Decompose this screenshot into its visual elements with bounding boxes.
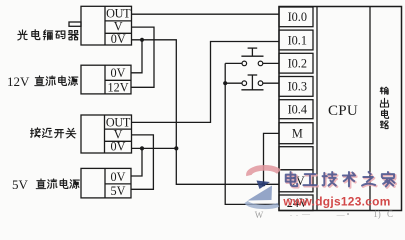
wire encoder OUT to I0.0 [132, 13, 280, 15]
svg-text:12V: 12V [108, 81, 129, 95]
proximity cell divider OUT/V [105, 128, 132, 130]
svg-text:. . —: . . — [290, 209, 311, 218]
wire encoder V to 12V+ supply [131, 27, 154, 87]
svg-text:www.dgjs123.com: www.dgjs123.com [282, 194, 390, 208]
proximity internal divider [104, 115, 106, 153]
svg-text:5V: 5V [12, 177, 29, 192]
encoder shaft tab [69, 22, 81, 26]
watermark logo blue bottom arc [246, 202, 279, 207]
stop pushbutton SB2 (NC) contact circles [242, 81, 247, 86]
input terminal 0V [279, 170, 313, 192]
encoder internal divider [104, 6, 106, 45]
output circuit column label: shu-chu-dian-lu [380, 87, 388, 94]
junction proximity 0V / 5V 0V [140, 146, 144, 150]
5V supply cell divider [105, 183, 131, 185]
wire proximity OUT to I0.1 [132, 42, 280, 123]
svg-text:I0.4: I0.4 [288, 103, 307, 117]
input terminal I0.2 [279, 53, 313, 73]
12V DC power supply body [81, 65, 131, 94]
stop button bridge bar [241, 89, 263, 91]
svg-text:I0.2: I0.2 [288, 57, 307, 71]
input terminal 24V [279, 195, 313, 211]
svg-text:0V: 0V [111, 140, 126, 154]
svg-text:0V: 0V [111, 66, 126, 80]
wire stop button to I0.3 [263, 82, 279, 84]
5V supply internal divider [104, 168, 106, 198]
label: guang-dian-bian-ma-qi (photoelectric encoder) [18, 30, 27, 40]
junction encoder 0V / 12V 0V [140, 38, 144, 42]
input terminal I0.0 [279, 7, 313, 27]
label: zhi-liu-dian-yuan (DC power) for 12V [35, 76, 44, 86]
label: zhi-liu-dian-yuan (DC power) for 5V [36, 179, 45, 189]
input terminal I0.4 [279, 100, 313, 119]
start button bridge bar [241, 55, 263, 57]
5V DC power supply body [81, 168, 131, 198]
svg-text:— •: — • [336, 210, 350, 219]
proximity cell divider V/0V [105, 140, 132, 142]
junction 0V net / M terminal branch [261, 182, 265, 186]
input terminal spare [279, 147, 313, 170]
watermark site name: dian-gong-ji-shu-zhi-jia [287, 173, 298, 187]
divider terminal column / CPU [316, 7, 318, 211]
wire start button left lead [225, 62, 242, 64]
stop button actuator cap [248, 74, 258, 76]
watermark logo pink top arc [249, 168, 279, 176]
svg-text:5V: 5V [111, 184, 126, 198]
input terminal M [279, 123, 313, 144]
wire stop button left lead [225, 82, 242, 84]
photoelectric encoder body [81, 6, 132, 45]
junction proximity 0V on 0V net [174, 146, 178, 150]
divider CPU / output circuit [369, 7, 371, 211]
svg-text:I0.0: I0.0 [288, 10, 307, 24]
wire proximity V to 5V+ supply [131, 135, 153, 189]
svg-text:0V: 0V [111, 32, 126, 46]
input terminal I0.1 [279, 30, 313, 50]
wire branch 0V net to M terminal [264, 133, 280, 184]
svg-text:12V: 12V [7, 74, 30, 89]
input terminal I0.3 [279, 77, 313, 97]
wire proximity 0V to 0V net [132, 147, 177, 149]
svg-text:1): 1) [373, 209, 381, 219]
wire start button to I0.2 [263, 62, 279, 64]
encoder cell divider V/0V [105, 32, 132, 34]
proximity switch body [81, 115, 132, 153]
wire 0V net: encoder 0V down to CPU 0V terminal [132, 40, 280, 185]
start button actuator cap [248, 47, 258, 49]
svg-text:0V: 0V [111, 170, 126, 184]
stop button actuator stem [251, 75, 253, 90]
wire branch to 5V supply 0V [131, 148, 142, 176]
svg-text:M: M [292, 127, 303, 141]
svg-text:I0.3: I0.3 [288, 80, 307, 94]
encoder cell divider OUT/V [105, 20, 132, 22]
label: jie-jin-kai-guan (proximity switch) [31, 128, 41, 137]
svg-text:OUT: OUT [106, 7, 131, 21]
junction stop button on 24V riser [223, 81, 227, 85]
start button actuator stem [251, 48, 253, 56]
watermark logo blue pennant [248, 186, 273, 201]
svg-text:C: C [387, 209, 393, 219]
wire button common to 24V terminal [225, 63, 279, 204]
12V supply cell divider [105, 79, 131, 81]
CPU outer box [279, 7, 402, 211]
watermark logo navy wedge [257, 181, 271, 190]
start pushbutton SB1 (NO) contact circles [242, 61, 247, 66]
svg-text:I0.1: I0.1 [288, 33, 307, 47]
wire branch to 12V supply 0V [131, 40, 142, 73]
svg-text:CPU: CPU [328, 103, 358, 119]
12V supply internal divider [104, 65, 106, 94]
svg-text:W: W [255, 210, 264, 220]
